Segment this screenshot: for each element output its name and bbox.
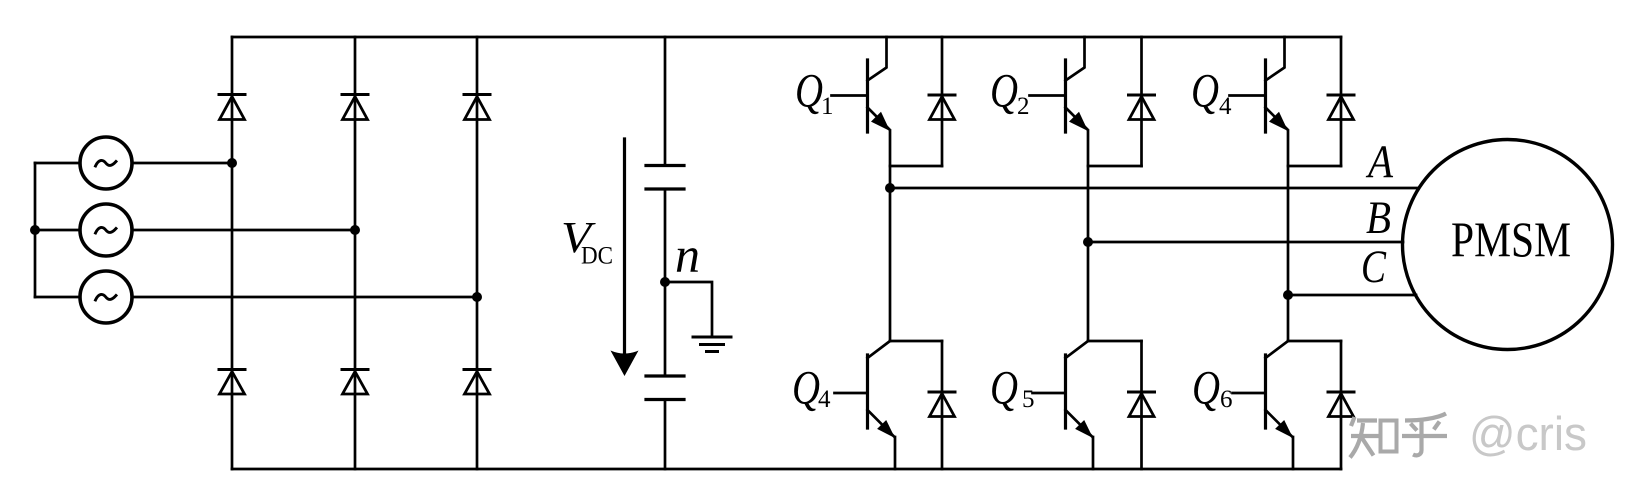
wire: C1 to C2 through node n: [664, 189, 667, 376]
wire: leg 3 bottom diode connector: [1288, 340, 1341, 343]
AC source V2: [80, 204, 132, 256]
diode D5 (rectifier top leg 3): [464, 95, 490, 120]
wire: DC link vertical (top bus to C1): [664, 37, 667, 166]
transistor Q4 (bottom, leg 1): [835, 341, 896, 438]
wire: leg 3 emitter down through phase node: [1287, 131, 1290, 342]
wire: phase C line: [1288, 294, 1416, 297]
diode: freewheel of Q1: [929, 37, 955, 166]
label Q6 (bottom): [1192, 362, 1233, 415]
svg-text:6: 6: [1220, 386, 1233, 413]
wire: source 2 left lead: [35, 229, 80, 232]
svg-text:A: A: [1365, 136, 1393, 188]
transistor Q2 (top, leg 2): [1030, 37, 1089, 132]
diode D1 (rectifier top leg 1): [219, 95, 245, 120]
label V_DC: [561, 213, 613, 270]
wire: AC neutral vertical bus: [34, 163, 37, 297]
svg-text:Q: Q: [990, 362, 1018, 415]
diode D3 (rectifier top leg 2): [342, 95, 368, 120]
node n junction: [660, 277, 670, 287]
diode D6 (rectifier bottom leg 2): [342, 370, 368, 395]
transistor Q6 (bottom, leg 3): [1233, 341, 1294, 438]
transistor Q5 (bottom, leg 2): [1033, 341, 1094, 438]
svg-text:4: 4: [1219, 93, 1232, 120]
svg-text:n: n: [675, 227, 700, 283]
capacitor C2: [646, 376, 684, 400]
node B: [1083, 237, 1093, 247]
wire: source 1 to rectifier leg 1: [132, 162, 232, 165]
diode: freewheel of Q5: [1129, 341, 1155, 469]
wire: C2 to bottom bus: [664, 400, 667, 470]
arrow: V_DC annotation: [611, 139, 639, 376]
wire: bottom DC bus: [232, 468, 1341, 471]
wire: top DC bus: [232, 36, 1341, 39]
svg-text:1: 1: [821, 93, 834, 120]
svg-text:Q: Q: [795, 65, 823, 118]
wire: rectifier leg 3 vertical: [476, 37, 479, 469]
wire: phase A line: [890, 187, 1418, 190]
label Q4 (bottom): [792, 362, 831, 415]
diode D4 (rectifier bottom leg 1): [219, 370, 245, 395]
label Q1 (top): [795, 65, 834, 121]
wire: leg 2 emitter down through phase node: [1087, 131, 1090, 342]
svg-text:2: 2: [1017, 93, 1030, 120]
wire: rectifier leg 1 vertical: [231, 37, 234, 469]
node: rectifier leg 3 AC input: [472, 292, 482, 302]
wire: leg 1 emitter down through phase node: [889, 131, 892, 342]
svg-text:Q: Q: [990, 65, 1018, 118]
watermark: [1350, 414, 1447, 458]
wire: leg 3 emitter to bottom bus: [1292, 437, 1295, 469]
transistor Q4 (top, leg 3): [1230, 37, 1289, 132]
wire: leg 2 bottom diode connector: [1088, 340, 1142, 343]
wire: rectifier leg 2 vertical: [354, 37, 357, 469]
label Q2 (top): [990, 65, 1030, 121]
svg-text:PMSM: PMSM: [1451, 211, 1571, 267]
node: rectifier leg 2 AC input: [350, 225, 360, 235]
wire: leg 3 top diode connector: [1288, 165, 1341, 168]
wire: source 1 left lead: [35, 162, 80, 165]
capacitor C1: [646, 166, 684, 190]
AC source V1: [80, 137, 132, 189]
label Q4 (top): [1191, 65, 1232, 121]
ground: [693, 337, 731, 352]
wire: source 3 to rectifier leg 3: [132, 296, 477, 299]
svg-text:C: C: [1361, 241, 1387, 293]
wire: leg 1 emitter to bottom bus: [894, 437, 897, 469]
wire: leg 1 bottom diode connector: [890, 340, 942, 343]
diode: freewheel of Q6: [1328, 341, 1354, 469]
junction: AC bus / phase 2: [30, 225, 40, 235]
wire: node n to ground: [665, 282, 712, 336]
label Q5 (bottom): [990, 362, 1035, 415]
diode D2 (rectifier bottom leg 3): [464, 370, 490, 395]
node A: [885, 183, 895, 193]
svg-text:4: 4: [818, 386, 831, 413]
wire: leg 1 top diode connector: [890, 165, 942, 168]
transistor Q1 (top, leg 1): [832, 37, 891, 132]
svg-text:@cris: @cris: [1469, 407, 1587, 460]
diode: freewheel of Q4: [1328, 37, 1354, 166]
wire: source 2 to rectifier leg 2: [132, 229, 355, 232]
diode: freewheel of Q4: [929, 341, 955, 469]
wire: leg 2 emitter to bottom bus: [1092, 437, 1095, 469]
node C: [1283, 290, 1293, 300]
node: rectifier leg 1 AC input: [227, 158, 237, 168]
motor PMSM: [1403, 140, 1613, 350]
svg-text:5: 5: [1022, 386, 1035, 413]
svg-text:B: B: [1366, 192, 1391, 244]
AC source V3: [80, 271, 132, 323]
wire: source 3 left lead: [35, 296, 80, 299]
wire: phase B line: [1088, 241, 1403, 244]
svg-text:Q: Q: [1191, 65, 1219, 118]
svg-text:Q: Q: [1192, 362, 1220, 415]
svg-text:DC: DC: [581, 243, 613, 270]
diode: freewheel of Q2: [1129, 37, 1155, 166]
svg-text:Q: Q: [792, 362, 820, 415]
wire: leg 2 top diode connector: [1088, 165, 1142, 168]
